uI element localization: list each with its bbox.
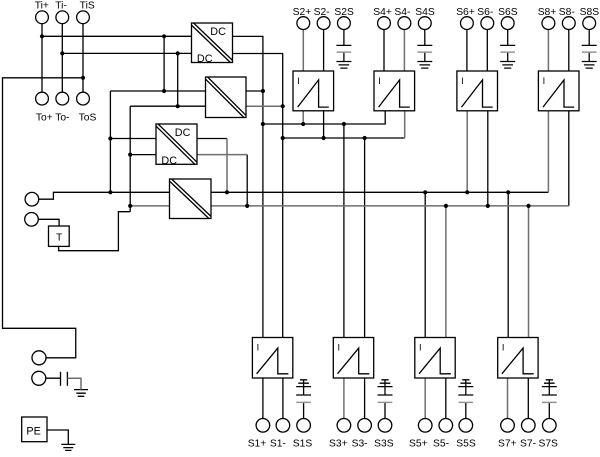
svg-text:S2+: S2+: [293, 7, 312, 18]
svg-text:PE: PE: [26, 425, 40, 437]
svg-text:I: I: [257, 343, 260, 353]
svg-text:T: T: [56, 233, 63, 244]
svg-text:S4+: S4+: [373, 7, 392, 18]
svg-text:Ti-: Ti-: [55, 0, 67, 11]
svg-text:To-: To-: [55, 113, 69, 124]
svg-text:S4-: S4-: [394, 7, 410, 18]
svg-text:I: I: [543, 76, 546, 86]
svg-text:S2-: S2-: [314, 7, 330, 18]
svg-text:S3-: S3-: [352, 439, 368, 450]
svg-text:S1+: S1+: [248, 439, 267, 450]
svg-text:Ti+: Ti+: [35, 0, 49, 11]
svg-text:S6+: S6+: [456, 7, 475, 18]
svg-text:S8-: S8-: [559, 7, 575, 18]
svg-text:S6S: S6S: [498, 7, 518, 18]
svg-text:I: I: [378, 76, 381, 86]
svg-text:To+: To+: [36, 113, 53, 124]
svg-text:DC: DC: [161, 155, 177, 167]
svg-text:S1S: S1S: [293, 439, 313, 450]
svg-text:S6-: S6-: [477, 7, 493, 18]
svg-text:S7-: S7-: [520, 439, 536, 450]
svg-text:S5+: S5+: [409, 439, 428, 450]
svg-text:S7+: S7+: [498, 439, 517, 450]
svg-text:S8+: S8+: [538, 7, 557, 18]
svg-text:I: I: [338, 343, 341, 353]
svg-text:S5S: S5S: [456, 439, 476, 450]
svg-text:S3+: S3+: [329, 439, 348, 450]
svg-text:I: I: [419, 343, 422, 353]
svg-text:DC: DC: [197, 53, 213, 65]
svg-text:S8S: S8S: [580, 7, 600, 18]
svg-text:S3S: S3S: [374, 439, 394, 450]
svg-text:I: I: [502, 343, 505, 353]
svg-text:S1-: S1-: [270, 439, 286, 450]
svg-text:I: I: [461, 76, 464, 86]
svg-text:S2S: S2S: [334, 7, 354, 18]
svg-text:S7S: S7S: [538, 439, 558, 450]
svg-text:TiS: TiS: [80, 0, 95, 11]
svg-text:DC: DC: [175, 127, 191, 139]
svg-text:S5-: S5-: [433, 439, 449, 450]
svg-text:I: I: [297, 76, 300, 86]
svg-text:ToS: ToS: [79, 113, 97, 124]
svg-text:S4S: S4S: [415, 7, 435, 18]
svg-text:DC: DC: [210, 26, 226, 38]
